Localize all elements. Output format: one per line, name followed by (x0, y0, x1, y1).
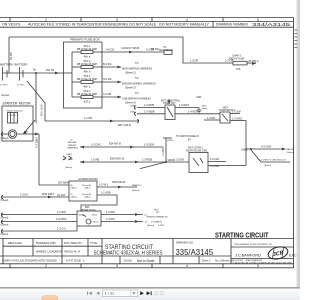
svg-text:W/S USED ON: W/S USED ON (64, 241, 82, 245)
svg-text:CA3-1: CA3-1 (71, 187, 78, 190)
svg-text:TO EARTH: TO EARTH (151, 221, 162, 224)
svg-text:CA3-4: CA3-4 (84, 196, 91, 199)
svg-text:1-3 RW: 1-3 RW (106, 217, 115, 221)
svg-text:1-2 RD: 1-2 RD (84, 116, 92, 120)
svg-text:5: 5 (257, 264, 259, 268)
svg-text:TO: TO (135, 76, 139, 80)
svg-text:1-0 DR: 1-0 DR (190, 58, 198, 62)
svg-text:CA8-1: CA8-1 (66, 153, 73, 156)
svg-text:Starter Solenoid: Starter Solenoid (7, 109, 23, 112)
svg-text:C.T.C.B: C.T.C.B (9, 115, 17, 117)
svg-text:BAT: BAT (24, 131, 29, 134)
svg-text:HARNESS: HARNESS (68, 146, 79, 149)
svg-text:B5 DR: B5 DR (151, 47, 159, 51)
svg-text:DRAWING NUMBER: DRAWING NUMBER (216, 23, 248, 27)
svg-text:2: 2 (45, 18, 47, 22)
svg-text:B17 a: B17 a (84, 101, 91, 104)
svg-text:A-1 DB/A: A-1 DB/A (35, 137, 39, 148)
svg-text:BATTERY: BATTERY (15, 63, 29, 67)
svg-text:STUD: STUD (158, 225, 164, 227)
svg-text:WORK BOX4: WORK BOX4 (81, 209, 96, 212)
svg-text:12 VDC: 12 VDC (0, 85, 8, 87)
svg-text:334/A3145: 334/A3145 (252, 22, 291, 27)
svg-text:R1 BR: R1 BR (9, 52, 13, 60)
svg-text:(Sheet): (Sheet) (1, 216, 9, 219)
svg-text:W2 WDA: W2 WDA (58, 181, 69, 185)
svg-text:CHASSY 948-B: CHASSY 948-B (121, 46, 140, 50)
svg-text:4: 4 (186, 264, 188, 268)
svg-text:W30 238-T: W30 238-T (42, 193, 55, 196)
svg-text:1-2 DGN TO LNK GND 4-B: 1-2 DGN TO LNK GND 4-B (259, 160, 286, 162)
svg-text:+B DIN-2: +B DIN-2 (248, 60, 259, 63)
svg-text:CA3-3: CA3-3 (71, 196, 78, 199)
svg-text:DB FUSE 40 AMP: DB FUSE 40 AMP (77, 78, 98, 81)
svg-text:TO: TO (135, 61, 139, 65)
svg-text:TO: TO (135, 91, 139, 95)
svg-text:1-2 W-1: 1-2 W-1 (99, 183, 109, 187)
svg-text:1-3 DG8: 1-3 DG8 (144, 142, 154, 146)
svg-text:(Sheet): (Sheet) (264, 164, 271, 167)
svg-text:COMPLY WITH JCB STANDARD N: COMPLY WITH JCB STANDARD NOTE 7000/2000 (2, 260, 57, 263)
svg-text:430ZX AL H: 430ZX AL H (64, 250, 80, 254)
svg-text:W2 30: W2 30 (46, 68, 55, 72)
svg-text:CHASSIS FRAME GS: CHASSIS FRAME GS (146, 215, 168, 218)
svg-text:TEM: TEM (68, 159, 73, 161)
svg-text:TITLE: TITLE (90, 241, 97, 245)
svg-text:1-3 IGN: 1-3 IGN (210, 157, 219, 161)
svg-text:1-3 RDB: 1-3 RDB (144, 103, 154, 107)
svg-text:(Sheet 2): (Sheet 2) (125, 70, 136, 74)
svg-text:CAB WIRING HARNESS: CAB WIRING HARNESS (122, 96, 151, 100)
svg-text:B7: B7 (188, 138, 192, 141)
svg-text:335/A3145: 335/A3145 (176, 248, 214, 257)
svg-text:4: 4 (186, 18, 188, 22)
svg-text:ENGINE WIRING HARNESS: ENGINE WIRING HARNESS (122, 81, 156, 85)
svg-text:1-3 KO: 1-3 KO (20, 192, 28, 196)
svg-text:S-0 DG: S-0 DG (103, 77, 112, 81)
svg-text:WHEEL LOADERS: WHEEL LOADERS (36, 250, 62, 254)
svg-text:30: 30 (63, 159, 66, 161)
svg-text:SCHEMATIC 430ZX AL H SERIE: SCHEMATIC 430ZX AL H SERIES (94, 251, 164, 257)
svg-text:GND2: GND2 (241, 148, 248, 151)
svg-text:1 / 31: 1 / 31 (105, 292, 114, 296)
svg-text:B-4 DG: B-4 DG (103, 62, 112, 66)
svg-text:& MUST NOT BE COPIED OR REPROD: & MUST NOT BE COPIED OR REPRODUCED W/OUT… (233, 262, 292, 264)
svg-text:ON VESYS: ON VESYS (2, 23, 21, 27)
svg-text:4B+ a: 4B+ a (84, 86, 91, 89)
svg-text:CA3-2: CA3-2 (84, 187, 91, 190)
svg-text:Sheet 1: Sheet 1 (202, 260, 211, 263)
svg-text:1-3 RD: 1-3 RD (207, 116, 215, 120)
svg-text:4-0 DG: 4-0 DG (106, 47, 114, 51)
svg-text:(Sheet): (Sheet) (132, 189, 139, 192)
svg-text:1-3 WDB: 1-3 WDB (162, 146, 165, 156)
svg-text:STARTER MOTOR: STARTER MOTOR (3, 102, 32, 106)
svg-text:GND: GND (196, 96, 202, 99)
svg-text:(Sheet): (Sheet) (1, 199, 9, 202)
svg-text:1-3 RB: 1-3 RB (91, 157, 99, 161)
svg-text:B+: B+ (145, 222, 148, 224)
svg-text:1-3 D-0: 1-3 D-0 (57, 227, 66, 231)
svg-text:J.C.BAMFORD.: J.C.BAMFORD. (235, 254, 262, 258)
svg-text:B+: B+ (33, 68, 37, 72)
svg-text:1-3 SW: 1-3 SW (232, 109, 241, 113)
svg-text:1-2 ADB: 1-2 ADB (101, 191, 111, 195)
svg-text:1-3 DWA: 1-3 DWA (56, 217, 67, 221)
svg-text:NO: NO (156, 212, 160, 214)
svg-text:(Sheet): (Sheet) (1, 233, 9, 236)
svg-text:WARN LT: WARN LT (132, 184, 142, 187)
svg-text:DB FUSE 40 AMP: DB FUSE 40 AMP (77, 63, 98, 66)
svg-text:MO-2: MO-2 (92, 214, 98, 216)
svg-text:DB FUSE 30 AMP: DB FUSE 30 AMP (77, 93, 98, 96)
svg-text:12 VDC: 12 VDC (17, 85, 25, 87)
svg-text:AUTOCAD FILE STORED IN TEAMCEN: AUTOCAD FILE STORED IN TEAMCENTER ENGINE… (28, 23, 210, 27)
svg-text:1-3 DXC: 1-3 DXC (91, 142, 101, 146)
svg-text:Ground: Ground (1, 94, 10, 97)
svg-text:1-3 WDB: 1-3 WDB (144, 110, 155, 114)
svg-text:1-3 DGN: 1-3 DGN (174, 157, 184, 161)
svg-text:4-3 DGN: 4-3 DGN (261, 145, 271, 149)
svg-text:(Sheet): (Sheet) (147, 224, 154, 227)
svg-text:BAT-36: BAT-36 (287, 148, 295, 151)
svg-text:2: 2 (45, 264, 47, 268)
svg-text:E34 967-B: E34 967-B (109, 142, 121, 145)
svg-text:START RLY: START RLY (163, 102, 176, 105)
svg-text:(A) 30A: (A) 30A (57, 194, 66, 197)
svg-text:DB FUSE 30 AMP: DB FUSE 30 AMP (77, 48, 98, 51)
svg-text:3: 3 (116, 264, 118, 268)
svg-text:1-3 DR: 1-3 DR (225, 58, 233, 62)
svg-text:E98 WZA-10: E98 WZA-10 (110, 157, 125, 160)
svg-text:3: 3 (116, 18, 118, 22)
svg-text:Sheet: Sheet (202, 107, 208, 110)
svg-text:(Sheet): (Sheet) (1, 137, 9, 140)
svg-text:1-4 RD1: 1-4 RD1 (188, 110, 198, 114)
svg-text:15A: 15A (236, 68, 241, 71)
svg-text:1-2 RW: 1-2 RW (106, 210, 115, 214)
svg-text:MAIN WIRING HARNESS: MAIN WIRING HARNESS (122, 66, 152, 70)
svg-text:(GND): (GND) (167, 140, 174, 142)
svg-text:4B+ a: 4B+ a (84, 71, 91, 74)
svg-text:D4B W30-B: D4B W30-B (112, 181, 126, 184)
svg-text:(Sheet 3): (Sheet 3) (125, 85, 136, 89)
svg-text:1-3 RDB: 1-3 RDB (142, 157, 152, 161)
svg-text:1-3 SW1: 1-3 SW1 (232, 116, 243, 120)
svg-text:BATTERY: BATTERY (0, 63, 14, 67)
svg-text:MO-1: MO-1 (79, 214, 85, 216)
svg-text:1-2 RW: 1-2 RW (57, 210, 66, 214)
svg-text:DRAWING NO.: DRAWING NO. (176, 240, 194, 244)
svg-text:MO-4: MO-4 (93, 222, 99, 224)
svg-text:1-4 IGN: 1-4 IGN (210, 164, 219, 168)
svg-text:1-3 RDG: 1-3 RDG (179, 103, 189, 107)
svg-text:IGNITION SW (ON): IGNITION SW (ON) (186, 149, 207, 152)
svg-text:W-5 +12V: W-5 +12V (40, 104, 44, 116)
svg-text:SCALE: SCALE (124, 260, 132, 263)
svg-text:(Sheet): (Sheet) (1, 223, 9, 226)
svg-text:Not to Scale: Not to Scale (137, 259, 155, 263)
svg-text:BUSINESS UNIT: BUSINESS UNIT (36, 241, 56, 245)
svg-text:4-2 DB: 4-2 DB (103, 92, 111, 96)
svg-text:N/T AT ISSUE A: N/T AT ISSUE A (66, 260, 85, 263)
svg-text:THIS DRAWING IS THE PROPERTY O: THIS DRAWING IS THE PROPERTY OF (234, 243, 273, 246)
svg-text:(Sheet 4): (Sheet 4) (125, 100, 136, 104)
svg-text:MAC RELAY: MAC RELAY (159, 49, 174, 52)
svg-text:ALTERNATOR: ALTERNATOR (78, 177, 99, 181)
svg-text:(Sheet): (Sheet) (65, 166, 72, 169)
svg-text:(Sheet): (Sheet) (287, 151, 294, 154)
svg-text:REPLACES: REPLACES (8, 241, 22, 245)
svg-text:4B+ a: 4B+ a (84, 56, 91, 59)
svg-text:PRIMARY FUSE BOX: PRIMARY FUSE BOX (70, 38, 100, 42)
svg-text:No. of Sheets 11: No. of Sheets 11 (215, 260, 234, 263)
svg-text:BAT CA6-B: BAT CA6-B (118, 124, 131, 127)
